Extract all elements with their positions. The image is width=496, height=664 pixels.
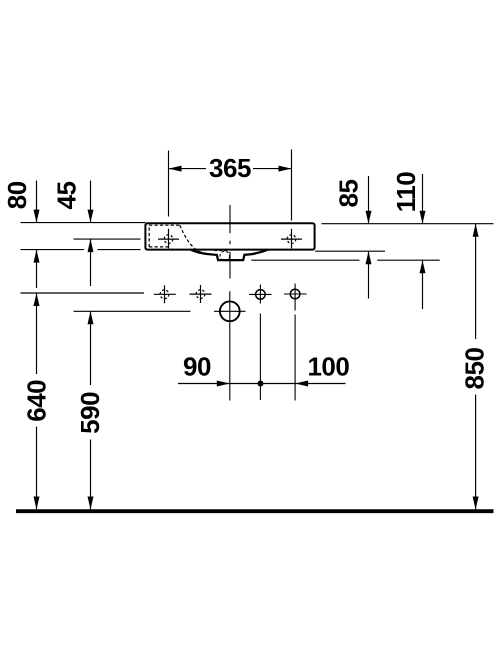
dim 85 vertical [366,176,372,299]
sink outline [145,223,314,249]
floor line [16,509,494,513]
left ref line 640 level [21,292,145,294]
svg-text:590: 590 [75,392,105,434]
dim 365 extension line right [291,150,293,221]
supply circle 1 [249,285,272,401]
wall cross symbol 2 [190,285,212,303]
svg-text:90: 90 [183,352,211,382]
hidden drain dashes [220,251,230,261]
dim 850 vertical [473,224,479,510]
dim 110 vertical [420,174,426,309]
svg-text:365: 365 [209,153,251,183]
svg-text:100: 100 [307,352,349,382]
dim 80/640 vertical column [34,181,40,510]
hidden cavity dashed rect [149,225,180,247]
deck faucet crosshair left [158,229,179,249]
drain circle [214,291,246,400]
svg-text:45: 45 [52,182,82,210]
svg-text:85: 85 [333,180,363,208]
svg-text:640: 640 [22,380,52,422]
dim 365 line right + arrow [253,168,292,170]
left ref line faucet height [74,238,141,240]
svg-text:850: 850 [459,348,489,390]
wall cross symbol 1 [154,285,176,303]
centerline through sink [229,205,231,279]
dim 365 extension line left [168,151,170,217]
left ref line 590 level [74,310,191,312]
sink bowl underside [191,250,268,261]
dim 45/590 vertical column [88,181,94,510]
hidden bowl dashed curve [180,225,205,253]
supply circle 2 [284,284,307,401]
right ref line rim [322,223,494,225]
deck faucet crosshair right [281,229,302,249]
left ref line rim [21,222,146,224]
right ref line 110 level [251,259,439,261]
svg-text:110: 110 [391,172,421,212]
svg-text:80: 80 [2,181,32,209]
left ref line sink bottom [21,249,141,251]
dim 90/100 line [178,381,346,387]
right ref line 85 level [315,250,385,252]
dim 365 line left + arrow [169,168,207,170]
